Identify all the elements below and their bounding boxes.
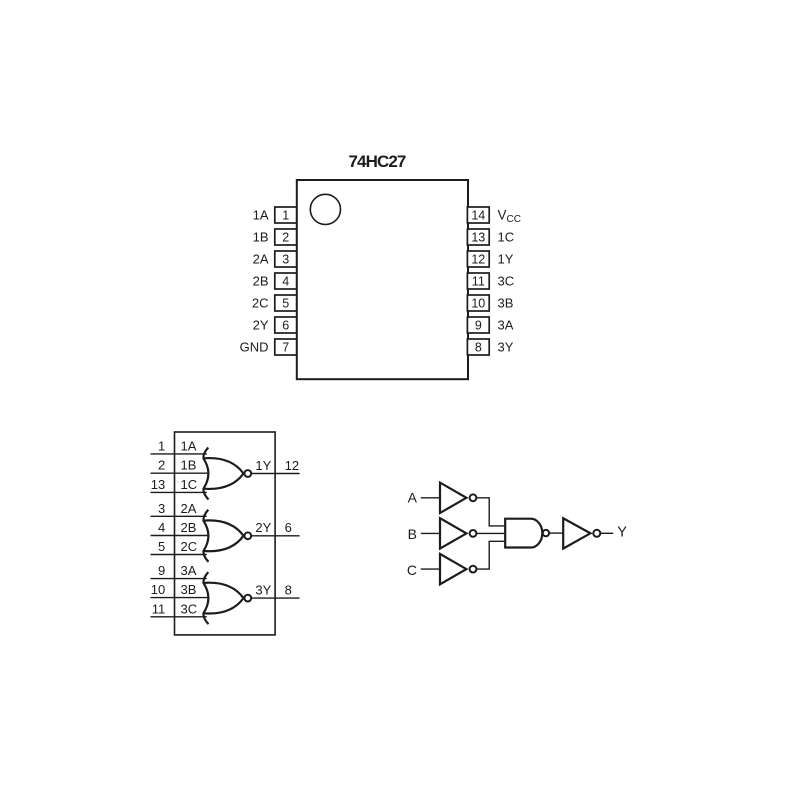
pin 9 label 3A (498, 318, 514, 333)
net label A (408, 489, 418, 505)
svg-text:2: 2 (158, 458, 165, 473)
wire input pin 3 (151, 515, 207, 517)
svg-text:3A: 3A (181, 563, 197, 578)
svg-text:9: 9 (475, 319, 482, 333)
NOR gate 3 (203, 572, 243, 624)
svg-text:8: 8 (285, 582, 292, 597)
svg-text:10: 10 (151, 582, 165, 597)
net label 3C (181, 601, 198, 616)
pin 14 label VCC (498, 208, 521, 226)
svg-text:1: 1 (282, 209, 289, 223)
pin-1 indicator circle (310, 194, 340, 224)
pin number 5 (158, 539, 165, 554)
svg-text:2C: 2C (252, 296, 269, 311)
net label 1C (181, 477, 198, 492)
pin 1 box (275, 207, 297, 223)
wire A input (421, 497, 440, 499)
pin 6 box (275, 317, 297, 333)
net label 1B (181, 458, 197, 473)
svg-text:3C: 3C (498, 274, 515, 289)
label 74HC27 (349, 152, 406, 171)
svg-text:VCC: VCC (498, 208, 521, 226)
pin 9 box (467, 317, 489, 333)
wire A to NAND (476, 498, 505, 526)
pin number 3 (158, 501, 165, 516)
svg-text:13: 13 (151, 477, 165, 492)
svg-text:2Y: 2Y (253, 318, 269, 333)
output inverter triangle (563, 518, 590, 548)
NOR gate 3 output bubble (244, 595, 251, 602)
svg-text:6: 6 (282, 319, 289, 333)
pin 8 box (467, 339, 489, 355)
svg-text:74HC27: 74HC27 (349, 152, 406, 171)
svg-text:4: 4 (158, 520, 165, 535)
svg-text:3Y: 3Y (255, 582, 271, 597)
net label 1A (181, 438, 197, 453)
NAND gate U2 (505, 519, 542, 548)
svg-text:C: C (407, 562, 417, 578)
pin number 6 (285, 520, 292, 535)
svg-text:2C: 2C (181, 539, 198, 554)
svg-text:2B: 2B (181, 520, 197, 535)
pin 4 label 2B (253, 274, 269, 289)
svg-text:1: 1 (158, 438, 165, 453)
wire input pin 2 (151, 472, 209, 474)
pin 2 label 1B (253, 230, 269, 245)
pin 3 box (275, 251, 297, 267)
inverter A triangle (440, 483, 466, 513)
net label B (408, 526, 417, 542)
svg-text:1A: 1A (253, 208, 269, 223)
svg-text:A: A (408, 489, 418, 505)
inverter A bubble (470, 494, 477, 501)
pin 7 box (275, 339, 297, 355)
svg-text:2Y: 2Y (255, 520, 271, 535)
svg-text:GND: GND (240, 340, 269, 355)
svg-text:2A: 2A (253, 252, 269, 267)
inverter B triangle (440, 518, 466, 548)
svg-text:1B: 1B (181, 458, 197, 473)
net label 3A (181, 563, 197, 578)
svg-text:12: 12 (285, 458, 299, 473)
pin 11 box (467, 273, 489, 289)
inverter C triangle (440, 554, 466, 584)
svg-text:3B: 3B (498, 296, 514, 311)
pin number 4 (158, 520, 165, 535)
svg-text:11: 11 (152, 601, 166, 616)
svg-text:1C: 1C (498, 230, 515, 245)
wire input pin 11 (151, 616, 207, 618)
output inverter bubble (593, 530, 600, 537)
wire input pin 1 (151, 453, 207, 455)
pin 4 box (275, 273, 297, 289)
pin 12 label 1Y (498, 252, 514, 267)
svg-text:14: 14 (471, 209, 485, 223)
wire output 1Y (251, 473, 300, 475)
pin 14 box (467, 207, 489, 223)
pin 1 label 1A (253, 208, 269, 223)
pin 13 label 1C (498, 230, 515, 245)
svg-text:6: 6 (285, 520, 292, 535)
net label 3B (181, 582, 197, 597)
NOR gate 2 output bubble (244, 532, 251, 539)
svg-text:8: 8 (475, 341, 482, 355)
svg-text:12: 12 (471, 253, 485, 267)
pin number 13 (151, 477, 165, 492)
net label Y (617, 525, 627, 541)
wire input pin 5 (151, 554, 207, 556)
svg-text:2: 2 (282, 231, 289, 245)
svg-text:3C: 3C (181, 601, 198, 616)
wire output 3Y (251, 597, 300, 599)
net label 2B (181, 520, 197, 535)
svg-text:B: B (408, 526, 417, 542)
pin 11 label 3C (498, 274, 515, 289)
pin 10 label 3B (498, 296, 514, 311)
pin 10 box (467, 295, 489, 311)
pin 5 label 2C (252, 296, 269, 311)
pin 7 label GND (240, 340, 269, 355)
net label 3Y (255, 582, 271, 597)
wire B input (421, 532, 440, 534)
inverter B bubble (470, 530, 477, 537)
pin 3 label 2A (253, 252, 269, 267)
pin number 11 (152, 601, 166, 616)
pin number 1 (158, 438, 165, 453)
svg-text:5: 5 (158, 539, 165, 554)
svg-text:3B: 3B (181, 582, 197, 597)
IC package body U1 (297, 180, 468, 379)
svg-text:2A: 2A (181, 501, 197, 516)
pin 12 box (467, 251, 489, 267)
pin 13 box (467, 229, 489, 245)
svg-text:Y: Y (617, 525, 627, 541)
svg-text:9: 9 (158, 563, 165, 578)
wire to Y (600, 532, 613, 534)
inverter C bubble (470, 566, 477, 573)
svg-text:5: 5 (282, 297, 289, 311)
net label 2A (181, 501, 197, 516)
wire input pin 13 (151, 491, 207, 493)
wire B to NAND (476, 532, 505, 534)
net label 2C (181, 539, 198, 554)
wire output 2Y (251, 535, 300, 537)
NOR gate 2 (203, 510, 243, 562)
NOR gate 1 output bubble (244, 470, 251, 477)
svg-text:3Y: 3Y (498, 340, 514, 355)
pin number 9 (158, 563, 165, 578)
svg-text:4: 4 (282, 275, 289, 289)
svg-text:11: 11 (472, 275, 485, 289)
pin 5 box (275, 295, 297, 311)
wire input pin 9 (151, 578, 207, 580)
svg-text:1C: 1C (181, 477, 198, 492)
pin 2 box (275, 229, 297, 245)
svg-text:10: 10 (471, 297, 485, 311)
wire input pin 10 (151, 597, 209, 599)
svg-text:7: 7 (282, 341, 289, 355)
svg-text:1Y: 1Y (498, 252, 514, 267)
pin number 10 (151, 582, 165, 597)
wire input pin 4 (151, 535, 209, 537)
pin 8 label 3Y (498, 340, 514, 355)
net label C (407, 562, 417, 578)
wire C to NAND (476, 541, 505, 569)
logic diagram outline box (175, 432, 276, 635)
pin number 2 (158, 458, 165, 473)
pin number 12 (285, 458, 299, 473)
pin number 8 (285, 582, 292, 597)
net label 2Y (255, 520, 271, 535)
pin 6 label 2Y (253, 318, 269, 333)
svg-text:1A: 1A (181, 438, 197, 453)
svg-text:3: 3 (282, 253, 289, 267)
wire NAND to inverter (549, 532, 563, 534)
net label 1Y (255, 458, 271, 473)
NAND output bubble (543, 530, 549, 536)
svg-text:3A: 3A (498, 318, 514, 333)
wire C input (421, 568, 440, 570)
svg-text:2B: 2B (253, 274, 269, 289)
svg-text:3: 3 (158, 501, 165, 516)
svg-text:13: 13 (471, 231, 485, 245)
NOR gate 1 (203, 448, 243, 500)
svg-text:1B: 1B (253, 230, 269, 245)
svg-text:1Y: 1Y (255, 458, 271, 473)
